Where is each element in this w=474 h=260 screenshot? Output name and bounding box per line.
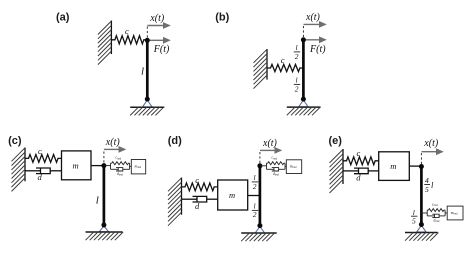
mass m (d) [218, 180, 248, 210]
TMD mass m_tmd (c) [131, 160, 145, 174]
ground (b) [287, 107, 321, 115]
svg-text:(b): (b) [215, 12, 229, 24]
svg-text:m: m [229, 190, 235, 200]
node top (c) [101, 163, 106, 168]
fraction l/5 (e) [411, 208, 417, 226]
wall (e) [330, 149, 344, 193]
pin support triangle (b) [299, 100, 308, 107]
wall (c) [12, 148, 26, 192]
svg-text:mtmd: mtmd [135, 165, 142, 170]
TMD link (c) [104, 165, 111, 167]
svg-text:2: 2 [253, 210, 257, 219]
fraction l/2 lower (b) [294, 76, 300, 94]
TMD link to box (d) [285, 165, 286, 167]
TMD damper d_tmd (c) [111, 168, 130, 171]
pin dot (a) [145, 97, 150, 102]
TMD bracket right (c) [129, 163, 131, 169]
node top (a) [145, 38, 150, 43]
fraction l/2 upper (b) [294, 43, 300, 61]
dashed reference line (b) [302, 26, 304, 39]
damper d (e) [343, 168, 379, 174]
svg-text:F(t): F(t) [153, 44, 170, 55]
svg-text:x(t): x(t) [423, 138, 439, 149]
pin dot (c) [101, 223, 106, 228]
svg-text:(d): (d) [168, 135, 182, 147]
TMD junction link (e) [421, 212, 427, 214]
TMD spring c_tmd (c) [111, 162, 130, 165]
TMD bracket left (c) [110, 163, 112, 169]
svg-text:d: d [356, 172, 361, 182]
fraction l/2 lower (d) [252, 202, 258, 220]
svg-text:mtmd: mtmd [451, 211, 458, 216]
svg-text:ctmd: ctmd [432, 203, 438, 208]
svg-text:c: c [195, 175, 199, 185]
ground (a) [130, 107, 164, 115]
arrow F(t) (b) [304, 36, 327, 43]
svg-text:c: c [281, 55, 285, 65]
TMD link to box (c) [130, 165, 132, 167]
TMD bracket right (e) [444, 210, 446, 216]
TMD bracket left (d) [266, 163, 268, 169]
TMD spring c_tmd (e) [427, 209, 445, 212]
damper d (c) [25, 168, 62, 174]
fraction 4/5 l (e) [424, 176, 434, 194]
svg-text:(e): (e) [329, 135, 343, 147]
spring c (b) [267, 64, 303, 71]
dashed reference line (d) [259, 152, 261, 164]
node top (e) [419, 164, 424, 169]
svg-text:c: c [125, 26, 129, 36]
svg-text:l: l [296, 43, 298, 52]
svg-text:x(t): x(t) [149, 13, 165, 24]
spring c (d) [182, 183, 218, 191]
dashed reference line (c) [103, 152, 105, 165]
svg-text:l: l [254, 173, 256, 182]
svg-text:m: m [73, 161, 79, 171]
rod (d) [259, 166, 262, 226]
svg-text:F(t): F(t) [309, 44, 326, 55]
svg-text:5: 5 [425, 185, 429, 194]
spring c (a) [111, 36, 147, 44]
pin dot (b) [301, 97, 306, 102]
wall (b) [254, 49, 268, 89]
ground (d) [241, 233, 277, 241]
dashed reference line (a) [146, 27, 148, 40]
damper d (d) [182, 196, 218, 202]
svg-text:x(t): x(t) [305, 12, 321, 23]
svg-text:c: c [38, 146, 42, 156]
ground (e) [405, 233, 438, 241]
arrow x(t) (c) [104, 146, 126, 153]
pin dot (d) [257, 223, 262, 228]
svg-text:(c): (c) [8, 135, 22, 147]
arrow x(t) (d) [260, 147, 282, 154]
wall (d) [168, 178, 182, 226]
svg-text:2: 2 [295, 52, 299, 61]
dashed reference line (e) [420, 153, 422, 165]
pin dot (e) [419, 222, 424, 227]
arrow x(t) (b) [304, 21, 327, 28]
rod l (c) [103, 166, 106, 225]
svg-text:l: l [254, 202, 256, 211]
svg-text:l: l [96, 194, 99, 206]
TMD bracket left (e) [426, 210, 428, 216]
TMD link to box (e) [445, 212, 447, 214]
pin support triangle (c) [99, 226, 108, 232]
svg-text:x(t): x(t) [262, 138, 278, 149]
mass m (e) [379, 152, 410, 181]
svg-text:4: 4 [425, 176, 429, 185]
pin support triangle (a) [143, 100, 152, 107]
arrow x(t) (e) [422, 148, 444, 155]
node top (b) [301, 37, 306, 42]
ground (c) [86, 232, 124, 240]
svg-text:l: l [296, 76, 298, 85]
mass m (c) [62, 151, 92, 180]
link mass to node (e) [409, 165, 421, 167]
arrow x(t) (a) [147, 22, 170, 29]
svg-text:(a): (a) [56, 12, 70, 24]
TMD link (d) [260, 165, 267, 167]
pin support triangle (e) [417, 225, 426, 232]
rod l (a) [146, 40, 149, 99]
TMD bracket right (d) [284, 163, 286, 169]
svg-text:mtmd: mtmd [290, 165, 297, 170]
svg-text:2: 2 [295, 84, 299, 93]
rod (e) [420, 167, 423, 225]
TMD damper d_tmd (d) [267, 168, 286, 171]
svg-text:5: 5 [412, 217, 416, 226]
svg-text:x(t): x(t) [105, 137, 121, 148]
svg-text:l: l [141, 65, 144, 77]
svg-text:l: l [413, 208, 415, 217]
link mass to node (c) [91, 165, 104, 167]
spring c (c) [25, 155, 62, 163]
fraction l/2 upper (d) [252, 173, 258, 191]
link mass to rod (d) [248, 195, 260, 197]
rod (b) [302, 40, 305, 99]
arrow F(t) (a) [147, 37, 170, 44]
TMD mass m_tmd (e) [447, 206, 463, 220]
node top (d) [257, 163, 262, 168]
TMD spring c_tmd (d) [267, 162, 285, 165]
wall (a) [98, 21, 112, 65]
TMD damper d_tmd (e) [427, 214, 445, 217]
svg-text:m: m [390, 161, 396, 171]
TMD mass m_tmd (d) [286, 160, 301, 174]
spring c (e) [343, 157, 379, 165]
svg-text:2: 2 [253, 182, 257, 191]
pin support triangle (d) [255, 227, 264, 234]
svg-text:c: c [357, 148, 361, 158]
